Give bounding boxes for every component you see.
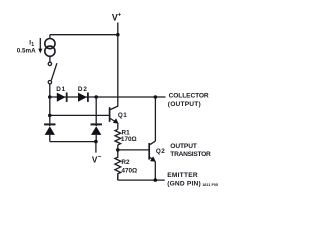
clamp diode D3 triangle: [45, 126, 55, 135]
wire node B down column: [95, 97, 97, 126]
wire current source to switch: [49, 56, 51, 62]
clamp diode D4 (right, cathode bar): [91, 123, 102, 125]
current arrow I1: [39, 38, 41, 49]
junction dot V- node: [94, 140, 98, 144]
wire Q1 collector up to V+ rail: [117, 35, 119, 107]
svg-text:Q2: Q2: [156, 148, 165, 155]
switch S1 blade: [51, 63, 57, 80]
svg-text:D1: D1: [56, 86, 66, 93]
transistor Q1 base bar: [109, 107, 111, 122]
junction dot node B (D2 cathode): [94, 95, 98, 99]
svg-text:OUTPUT: OUTPUT: [170, 143, 197, 150]
diode D2: [78, 93, 87, 102]
wire V+ stub: [117, 23, 119, 35]
wire bottom clamp line: [50, 141, 96, 143]
label I1: [29, 39, 34, 48]
wire Q2 collector up to collector node: [154, 97, 156, 141]
svg-text:(GND PIN): (GND PIN): [167, 181, 201, 188]
svg-text:0.5mA: 0.5mA: [17, 48, 36, 55]
transistor Q2 collector diagonal: [150, 141, 156, 145]
junction dot collector node: [154, 95, 158, 99]
wire D4 to V- node: [95, 135, 97, 142]
svg-text:EMITTER: EMITTER: [167, 172, 198, 179]
svg-text:1811 F05: 1811 F05: [202, 183, 218, 187]
transistor Q2 emitter diagonal with arrow: [150, 157, 153, 159]
transistor Q2 base bar: [148, 143, 150, 160]
label EMITTER (GND PIN): [167, 172, 201, 187]
label OUTPUT TRANSISTOR: [170, 143, 211, 158]
resistor R2: [115, 150, 121, 180]
svg-text:R2: R2: [121, 159, 130, 166]
wire left column (node A down to clamp diode): [49, 97, 51, 126]
wire switch to node A: [49, 84, 51, 97]
wire Q2 emitter down: [154, 161, 156, 180]
wire collector rail (diode row to COLLECTOR output): [50, 96, 166, 98]
svg-text:−: −: [98, 153, 102, 160]
switch S1 bottom contact: [48, 81, 51, 84]
wire node C to Q2 base: [118, 149, 149, 151]
clamp diode D3 (left, cathode bar): [44, 123, 55, 125]
svg-text:+: +: [118, 11, 122, 18]
junction dot node C (R1/R2): [116, 148, 120, 152]
transistor Q1 collector diagonal: [110, 106, 118, 110]
svg-text:D2: D2: [78, 86, 88, 93]
junction dot emitter node: [154, 178, 158, 182]
wire V- stub: [95, 142, 97, 153]
junction dot left column base line: [48, 114, 52, 118]
wire Q1 base line: [50, 114, 109, 116]
wire R2 bottom lead: [117, 175, 119, 180]
current source I1: [45, 39, 55, 49]
svg-text:470Ω: 470Ω: [121, 168, 137, 175]
wire top rail: [50, 34, 118, 36]
svg-text:Q1: Q1: [118, 112, 127, 119]
wire emitter line: [118, 179, 165, 181]
svg-text:COLLECTOR: COLLECTOR: [169, 93, 209, 100]
node V+ label: [112, 11, 122, 22]
wire R1 to node C: [117, 145, 119, 150]
svg-text:TRANSISTOR: TRANSISTOR: [170, 151, 211, 158]
wire Q1 emitter to R1: [117, 123, 119, 130]
clamp diode D4 triangle: [91, 126, 101, 135]
wire current source top lead: [49, 35, 51, 39]
transistor Q1 emitter diagonal with arrow: [110, 119, 115, 122]
wire D3 to bottom line: [49, 135, 51, 142]
diode D1: [57, 93, 66, 102]
resistor R1: [115, 129, 121, 145]
switch S1 top contact: [48, 62, 51, 65]
label COLLECTOR (OUTPUT): [168, 93, 209, 109]
svg-text:(OUTPUT): (OUTPUT): [168, 101, 201, 108]
junction dot node A: [48, 95, 52, 99]
node V- label: [92, 153, 102, 164]
junction dot V+ rail: [116, 33, 120, 37]
svg-text:170Ω: 170Ω: [121, 136, 137, 143]
